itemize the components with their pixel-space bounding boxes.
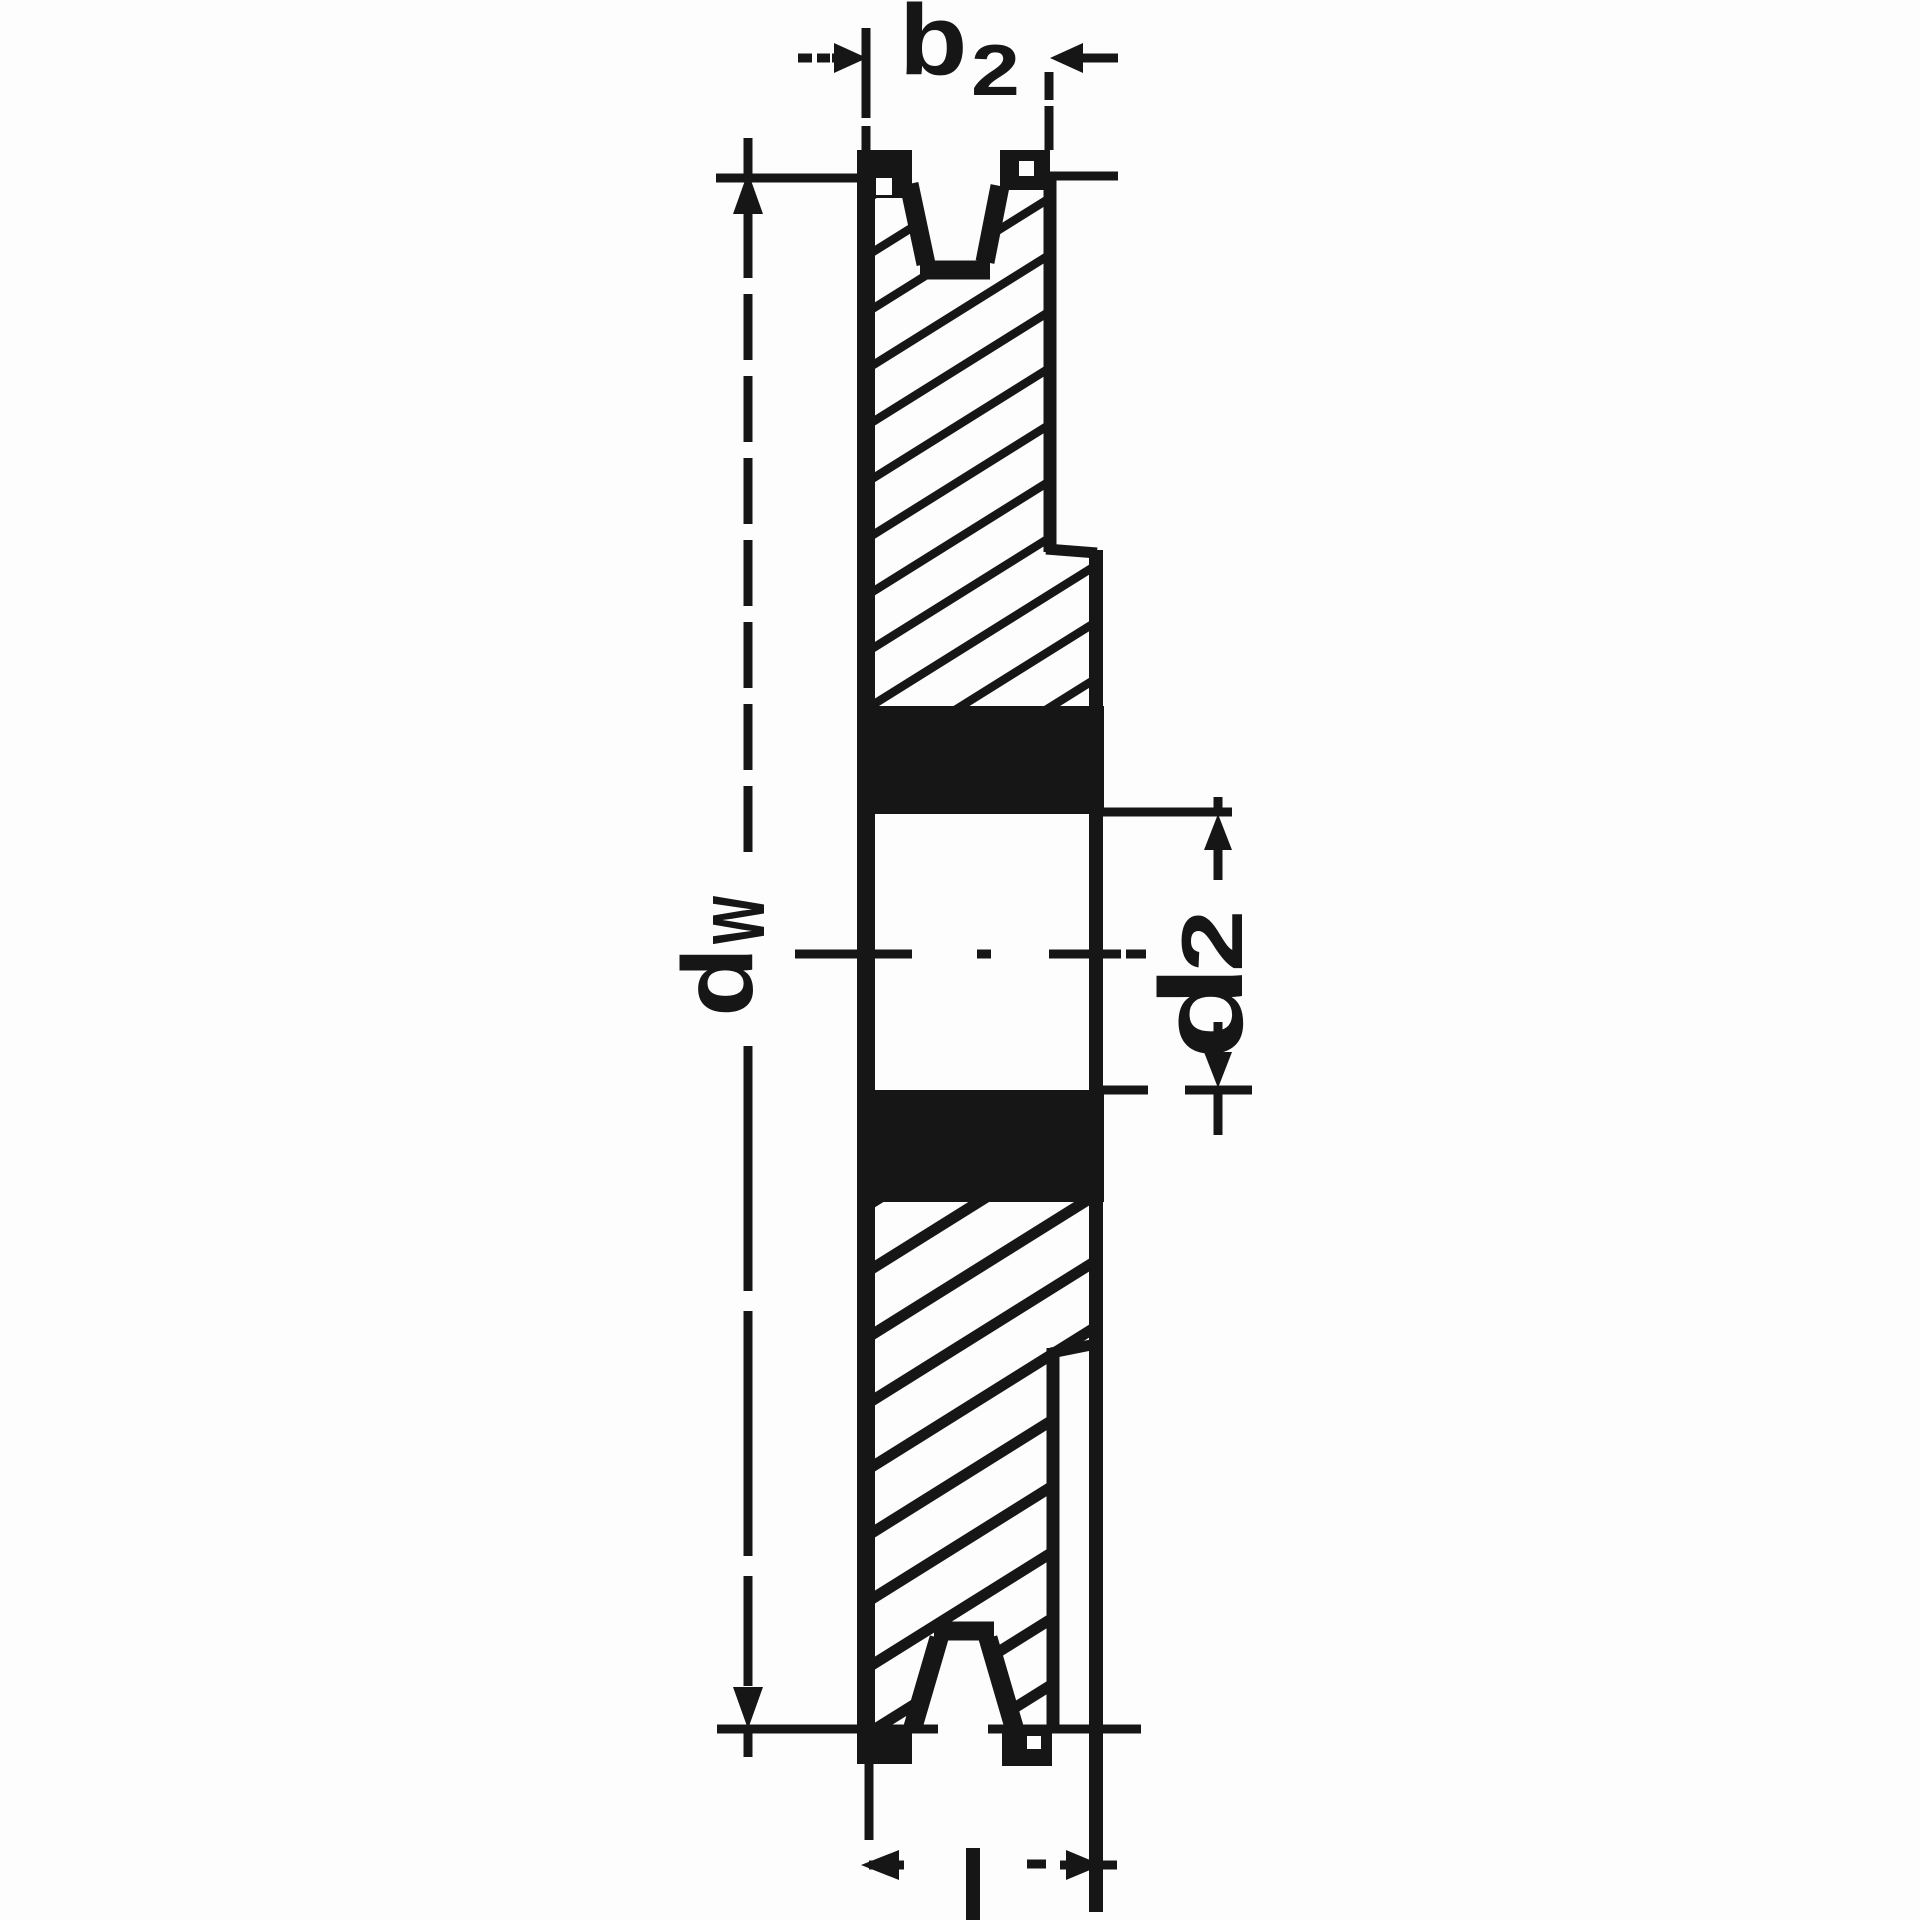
svg-text:2: 2 [1165,910,1261,972]
svg-text:d: d [661,947,773,1017]
svg-text:d: d [1136,965,1268,1060]
svg-text:b: b [899,0,967,96]
svg-text:w: w [678,895,785,944]
svg-text:2: 2 [971,30,1020,111]
